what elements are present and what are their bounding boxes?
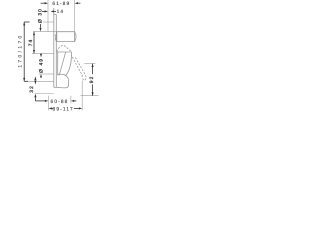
svg-text:74: 74	[28, 39, 34, 47]
svg-text:Ø 49: Ø 49	[38, 58, 44, 73]
svg-text:61-89: 61-89	[52, 1, 70, 7]
svg-text:170/170: 170/170	[17, 33, 23, 67]
svg-text:14: 14	[57, 9, 65, 15]
svg-text:92: 92	[89, 76, 95, 84]
svg-text:89-117: 89-117	[53, 107, 74, 113]
svg-text:32: 32	[29, 85, 35, 93]
svg-text:Ø 30: Ø 30	[38, 8, 44, 23]
svg-text:60-88: 60-88	[51, 99, 69, 105]
